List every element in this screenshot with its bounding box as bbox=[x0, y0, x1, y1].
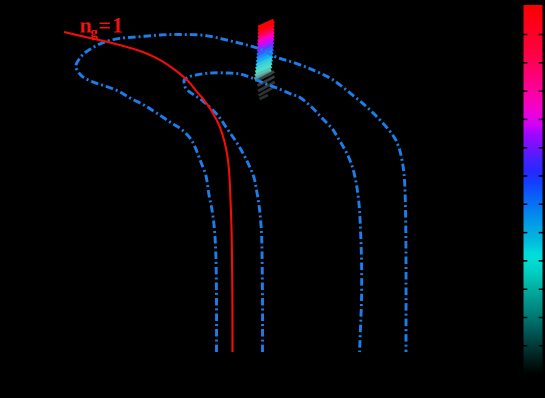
comet rainbow trail bbox=[258, 21, 274, 28]
svg-text:g: g bbox=[91, 25, 99, 41]
colorbar bbox=[524, 5, 543, 375]
colorbar ticks bbox=[524, 34, 543, 36]
red curve n_g = 1 bbox=[64, 32, 233, 352]
svg-text:1: 1 bbox=[112, 13, 123, 38]
label n_g = 1 bbox=[80, 13, 123, 41]
inner contour (blue dash-dot) bbox=[184, 73, 362, 352]
outer contour (blue dash-dot) bbox=[76, 34, 406, 352]
svg-text:=: = bbox=[99, 13, 112, 38]
